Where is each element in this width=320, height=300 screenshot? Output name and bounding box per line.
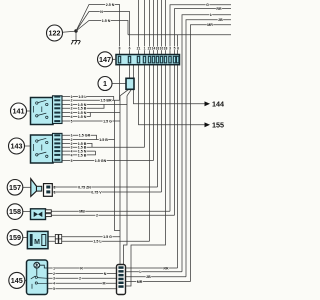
svg-text:0.75 V: 0.75 V (91, 190, 102, 194)
svg-text:3: 3 (169, 46, 171, 50)
svg-text:21: 21 (137, 46, 141, 50)
svg-text:141: 141 (13, 107, 25, 116)
component circle 157 (7, 180, 23, 196)
wire to arrow 144 (134, 65, 206, 104)
svg-text:1.5 G: 1.5 G (103, 119, 112, 123)
145 wire labels (79, 266, 107, 285)
component circle 147 (98, 52, 113, 67)
svg-text:2B: 2B (218, 18, 223, 22)
svg-text:2: 2 (79, 277, 81, 281)
wire pin 10 from top edge (161, 0, 163, 55)
svg-text:RR: RR (163, 266, 169, 270)
inline connector on 159 wire 1 (55, 235, 58, 240)
wire MR bottom (126, 281, 191, 283)
145 pin numbers (53, 266, 55, 291)
wire 143 circle link (25, 145, 31, 147)
svg-text:8: 8 (119, 46, 121, 50)
wire L bottom (126, 271, 183, 273)
switch unit 141 (31, 96, 63, 125)
wire N to pin 6 (76, 12, 130, 55)
wire 141 pin1 1.5L (62, 97, 114, 101)
wire 157 pin1 0.75V (56, 191, 162, 193)
wire pin 3 down to 158 (169, 65, 171, 212)
143 wire labels (78, 134, 108, 163)
svg-text:1.5 BR: 1.5 BR (100, 99, 112, 103)
svg-text:1.5 GR: 1.5 GR (79, 134, 91, 138)
wire pin 22 from top edge (149, 0, 151, 55)
wire 143 pin4 (62, 146, 145, 148)
motor 159 (23, 231, 62, 248)
wire 143 pin3 (62, 143, 92, 147)
svg-text:RR: RR (216, 7, 222, 11)
wire 145 pin2 (48, 273, 117, 275)
wire pin 18 down to bottom connector (126, 65, 166, 286)
svg-text:4: 4 (71, 153, 73, 157)
wire RR bottom (126, 267, 178, 269)
wire vertical V1 (115, 100, 121, 230)
bottom right labels (137, 266, 169, 284)
component circle 159 (7, 230, 23, 246)
wire 145 pin1 (48, 267, 117, 269)
svg-text:4: 4 (53, 282, 55, 286)
svg-text:6: 6 (177, 46, 179, 50)
pin numbers 147 (119, 46, 180, 50)
wire ground stem (75, 31, 77, 41)
svg-text:MR: MR (207, 23, 213, 27)
svg-text:1.5 GN: 1.5 GN (95, 159, 107, 163)
connector strip 147 (116, 55, 180, 65)
svg-text:4: 4 (71, 115, 73, 119)
wire 143 pin7 1.5GN (62, 160, 154, 162)
wire pin 1 from top edge (144, 0, 146, 55)
svg-text:1.5 N: 1.5 N (102, 19, 111, 23)
svg-text:1.5 B: 1.5 B (99, 138, 108, 142)
wire pin 14 from top edge (153, 0, 155, 55)
wire 145 pin4 (48, 282, 117, 284)
141 pin numbers (71, 95, 73, 124)
wire to arrow 155 (139, 65, 206, 125)
wire pin 6 down to RR (177, 65, 179, 268)
speaker 157 (23, 179, 56, 197)
wire 141 pin4 bracket (62, 104, 104, 108)
wire pin 33 from top edge (157, 0, 159, 55)
wire L right edge riser (182, 15, 231, 272)
strip pins (118, 56, 179, 63)
wire 158 w1 (51, 210, 170, 212)
wire 2B right edge riser (186, 20, 231, 277)
component circle 145 (9, 272, 25, 288)
wire 141 pin2 1.5BR (62, 99, 120, 101)
ground (71, 41, 80, 45)
wire 122 to junction (63, 31, 75, 32)
component circle 158 (7, 204, 23, 220)
wire 141 pin3 1.5N (62, 103, 127, 105)
svg-text:2.5 N: 2.5 N (106, 3, 115, 7)
svg-text:2B: 2B (146, 275, 151, 279)
svg-text:M: M (34, 239, 40, 246)
wire 2B bottom (126, 276, 187, 278)
svg-text:5: 5 (71, 119, 73, 123)
wires layer (25, 0, 232, 289)
svg-text:155: 155 (212, 121, 224, 130)
wire pin 18 from top edge (165, 0, 167, 55)
svg-text:1.5 L: 1.5 L (78, 95, 87, 99)
svg-text:157: 157 (9, 183, 21, 192)
svg-text:MB: MB (79, 210, 85, 214)
wire fuse fan right (127, 89, 131, 95)
wire pin 21 from top edge (138, 0, 140, 55)
wire 143 pin1 1.5GR jog (62, 135, 97, 139)
wire pin 14 down to 143 pin5 (153, 65, 155, 161)
svg-text:2: 2 (96, 213, 98, 217)
svg-text:145: 145 (11, 276, 23, 285)
wire 143 pin2 1.5B (62, 139, 115, 141)
svg-text:1.5 L: 1.5 L (93, 240, 102, 244)
svg-text:2: 2 (53, 272, 55, 276)
svg-text:158: 158 (9, 207, 21, 216)
wire 143 pin6 bracket (62, 151, 96, 155)
svg-text:144: 144 (212, 100, 224, 109)
wire 1.5N jog (76, 21, 128, 35)
wire 147 circle link (113, 58, 117, 60)
svg-text:1: 1 (144, 46, 146, 50)
svg-text:1.5 N: 1.5 N (78, 115, 87, 119)
wire pin 33 down to 157 (157, 65, 159, 187)
svg-text:5: 5 (53, 287, 55, 291)
svg-text:5: 5 (174, 46, 176, 50)
flasher unit 145 (25, 260, 48, 295)
143 pin numbers (71, 134, 73, 163)
svg-text:5: 5 (71, 159, 73, 163)
wire 141 pin7 1.5G (62, 120, 120, 122)
wire RR right edge to pin 5 (175, 9, 232, 55)
svg-text:1.5 G: 1.5 G (103, 235, 112, 239)
switch 158 (23, 209, 52, 220)
wire pin 8 down to 1.5BR (119, 65, 121, 101)
wire 157 pin2 0.75ZN (56, 186, 158, 188)
svg-text:147: 147 (99, 55, 111, 64)
wire 158 w2 (51, 214, 174, 216)
wire pin 22 down to 159 (149, 65, 151, 242)
svg-text:N: N (100, 10, 103, 14)
wire G right edge to pin 3 (170, 5, 231, 55)
wire pin 10 down to 157 (161, 65, 163, 192)
svg-text:N: N (104, 272, 107, 276)
wire 159 w2 1.5L (48, 240, 150, 242)
wire supply vertical V2 (119, 96, 121, 265)
wire 141 pin5 (62, 112, 120, 114)
svg-text:0.75 ZN: 0.75 ZN (78, 185, 91, 189)
wire 145 pin3 (48, 277, 117, 279)
component circle 122 (47, 25, 63, 41)
arrow 144 head (205, 101, 211, 106)
svg-text:M: M (103, 282, 106, 286)
svg-text:18: 18 (164, 46, 168, 50)
wire circle1 to fuse (112, 83, 126, 85)
wire pin 5 down to 158 (174, 65, 176, 216)
wire fuse fan left (120, 89, 129, 95)
wire 141 pin6 bracket (62, 113, 90, 117)
component circle 141 (11, 103, 27, 119)
wire pin 1 down to 143 (144, 65, 146, 148)
arrow 155 head (205, 122, 211, 127)
switch unit 143 (31, 133, 63, 163)
wire pin 6 tick from 1.5N line (177, 35, 179, 55)
svg-text:143: 143 (11, 142, 23, 151)
wire 145 pin5 (32, 288, 117, 290)
wire pin 6 down to fuse (129, 65, 131, 79)
svg-text:G: G (206, 3, 209, 7)
svg-text:122: 122 (49, 29, 61, 38)
svg-text:R: R (80, 266, 83, 270)
wire MR right edge riser (191, 25, 232, 282)
node ground junction (74, 29, 77, 32)
components layer (7, 25, 224, 295)
wire 2.5N to pin 8 (76, 5, 120, 55)
svg-text:6: 6 (129, 46, 131, 50)
component circle 143 (9, 138, 25, 154)
wire 1.5N continuation to right edge (128, 34, 231, 36)
bottom connector (117, 265, 126, 295)
141 wire labels (78, 95, 112, 124)
fuse 1 (126, 78, 134, 89)
svg-text:1: 1 (53, 266, 55, 270)
svg-text:159: 159 (9, 233, 21, 242)
wire supply vertical V3 (124, 96, 128, 265)
wire 143 pin5 (62, 150, 96, 152)
component circle 1 (98, 77, 112, 91)
svg-text:1.5 B: 1.5 B (78, 153, 87, 157)
wire 141 circle link (27, 110, 31, 112)
wire 159 w1 1.5G (48, 236, 120, 238)
inline connector on 159 wire 2 (55, 239, 58, 244)
svg-text:1: 1 (103, 79, 107, 88)
svg-text:MR: MR (137, 280, 143, 284)
labels layer (53, 3, 223, 291)
svg-text:3: 3 (53, 277, 55, 281)
